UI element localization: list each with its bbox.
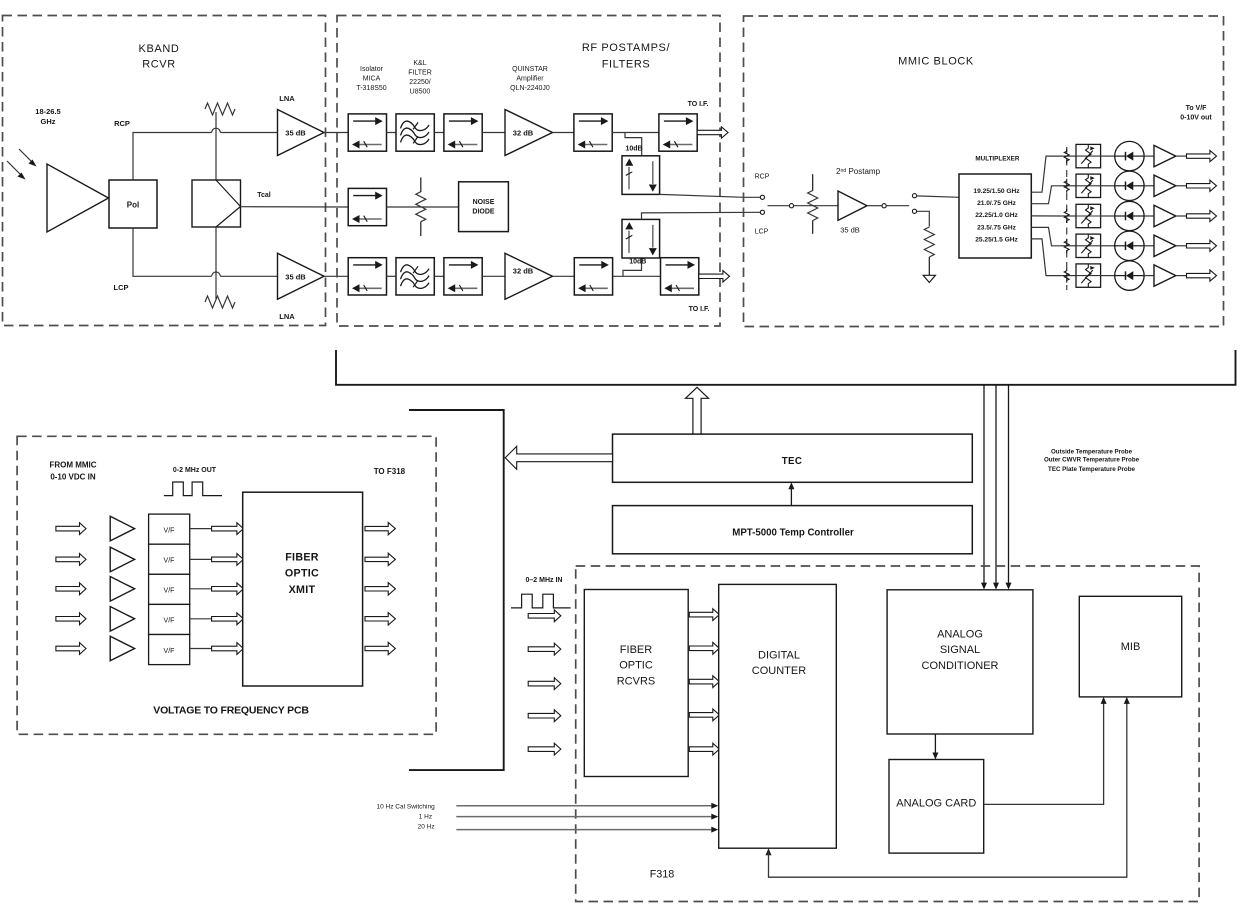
F318 fiber input arrow 5 (528, 743, 561, 755)
svg-text:TO F318: TO F318 (374, 467, 406, 476)
svg-text:RCP: RCP (114, 119, 130, 128)
channel 1 wire into detector chain (1060, 155, 1076, 157)
wire Pol top to RCP line (133, 133, 212, 181)
postamp level resistor (808, 191, 818, 221)
svg-text:DIGITAL: DIGITAL (758, 650, 800, 662)
svg-text:2nd Postamp: 2nd Postamp (836, 167, 881, 176)
V/F to XMIT arrow 2 (212, 554, 244, 566)
channel 4 variable attenuator (1076, 234, 1101, 257)
wire 10dB attenuator to LCP switch contact (642, 212, 761, 219)
F318 fiber input arrow 1 (528, 610, 561, 622)
square wave symbol V/F output (164, 482, 222, 496)
To V/F 0-10V out label (1180, 105, 1212, 122)
svg-text:35 dB: 35 dB (840, 226, 860, 235)
rcvr to counter arrow 5 (689, 743, 719, 755)
MPT-5000 Temp Controller box (613, 506, 973, 554)
svg-text:DIODE: DIODE (472, 209, 495, 216)
MIB box (1079, 596, 1181, 697)
postamp isolator RCP (574, 114, 612, 151)
rcvr to counter arrow 3 (689, 676, 719, 688)
wire isolator to 32dB amp (LCP) (482, 275, 505, 277)
QUINSTAR Amplifier label (510, 66, 550, 92)
svg-text:LNA: LNA (279, 94, 295, 103)
wire upper contact to multiplexer (917, 196, 959, 197)
svg-text:TEC: TEC (782, 456, 803, 467)
svg-text:QLN-2240J0: QLN-2240J0 (510, 85, 550, 92)
FROM MMIC 0-10 VDC IN label (49, 461, 96, 482)
LNA amplifier bottom (278, 253, 325, 299)
wire isolator to noise source resistor (387, 206, 459, 208)
svg-text:ANALOG CARD: ANALOG CARD (896, 798, 976, 810)
channel 5 video amplifier (1154, 265, 1176, 286)
TEC hollow arrow to plate (686, 387, 709, 434)
channel 1 wire amplifier to output (1176, 155, 1187, 157)
F318 fiber input arrow 4 (528, 710, 561, 722)
svg-text:FROM MMIC: FROM MMIC (49, 461, 96, 470)
mux output wire channel 4 (1031, 227, 1060, 245)
wire postamp to output contact (867, 205, 882, 207)
wire pole to postamp (794, 205, 838, 207)
wire V/F to xmit arrow 4 (190, 618, 212, 620)
svg-text:22.25/1.0 GHz: 22.25/1.0 GHz (975, 212, 1018, 219)
channel 3 wire amplifier to output (1176, 215, 1187, 217)
channel 2 wire into detector chain (1060, 185, 1076, 187)
channel 5 output arrow (1187, 270, 1217, 281)
wire V/F to xmit arrow 3 (190, 588, 212, 590)
V/F input arrow 5 (56, 643, 86, 655)
cal switching wire 20 Hz (456, 827, 718, 833)
V/F converter box 2 (149, 544, 190, 574)
svg-text:TEC Plate Temperature Probe: TEC Plate Temperature Probe (1048, 466, 1135, 473)
mux output wire channel 2 (1031, 186, 1060, 204)
FIBER OPTIC RCVRS box (584, 590, 688, 777)
noise injection attenuator resistor (416, 177, 426, 236)
V/F converter box 4 (149, 604, 190, 634)
channel 2 bias resistor (1064, 179, 1069, 193)
channel 4 wire attenuator to detector (1101, 245, 1115, 247)
V/F input buffer amplifier 5 (110, 636, 134, 661)
channel 4 video amplifier (1154, 235, 1176, 256)
channel 5 wire attenuator to detector (1101, 275, 1115, 277)
TO I.F. output arrow top (697, 127, 728, 138)
antenna horn (47, 164, 109, 232)
channel 1 video amplifier (1154, 145, 1176, 166)
V/F to XMIT arrow 1 (212, 523, 244, 535)
wire isolator to 32dB amp (RCP) (482, 132, 505, 134)
svg-text:FIBER: FIBER (285, 551, 319, 563)
RF POSTAMPS/FILTERS title (582, 42, 671, 71)
channel 3 wire detector to amplifier (1144, 215, 1154, 217)
V/F converter box 1 (149, 514, 190, 544)
svg-text:32 dB: 32 dB (513, 129, 534, 138)
TO I.F. output arrow bottom (699, 271, 730, 282)
svg-text:FIBER: FIBER (620, 644, 652, 656)
svg-text:0-2 MHz OUT: 0-2 MHz OUT (173, 467, 217, 474)
svg-text:GHz: GHz (41, 117, 56, 126)
svg-text:TO I.F.: TO I.F. (689, 306, 710, 313)
svg-text:32 dB: 32 dB (513, 266, 534, 275)
TEC hollow arrow to V/F cable bracket (505, 446, 612, 469)
thermal bus plate (336, 350, 1236, 385)
arrow conditioner to analog card (932, 734, 938, 760)
temperature probe wire 2 (993, 385, 999, 590)
V/F to XMIT arrow 3 (212, 583, 244, 595)
wire V/F to xmit arrow 5 (190, 648, 212, 650)
wire tap to 10dB attenuator top (625, 133, 642, 156)
V/F input buffer amplifier 1 (110, 516, 134, 541)
V/F input arrow 1 (56, 523, 86, 535)
svg-text:FILTERS: FILTERS (602, 59, 651, 71)
svg-text:TO I.F.: TO I.F. (688, 101, 709, 108)
svg-text:20 Hz: 20 Hz (418, 823, 435, 830)
18-26.5 GHz label (35, 107, 60, 126)
top termination resistor (205, 103, 235, 115)
F318 enclosure dashed box (576, 566, 1199, 902)
10dB attenuator top (622, 156, 660, 195)
wire Tcal to middle isolator (241, 206, 349, 208)
temperature probe labels (1044, 448, 1140, 473)
svg-text:XMIT: XMIT (289, 584, 316, 596)
svg-text:CONDITIONER: CONDITIONER (922, 660, 999, 672)
svg-text:OPTIC: OPTIC (285, 568, 319, 580)
svg-text:Tcal: Tcal (257, 192, 271, 199)
channel 1 wire detector to amplifier (1144, 155, 1154, 157)
channel 4 wire detector to amplifier (1144, 245, 1154, 247)
channel 2 wire detector to amplifier (1144, 185, 1154, 187)
10dB attenuator bottom (622, 219, 660, 258)
incoming signal arrow 1 (19, 149, 37, 167)
fiber output arrow 1 (365, 522, 395, 534)
svg-text:MIB: MIB (1121, 641, 1141, 653)
QUINSTAR amplifier LCP 32 dB (505, 253, 553, 299)
polarizer box Pol (109, 180, 157, 228)
load resistor to ground (924, 227, 934, 275)
svg-text:RF POSTAMPS/: RF POSTAMPS/ (582, 42, 671, 54)
svg-text:U8500: U8500 (410, 89, 431, 96)
wire filter to isolator (LCP) (434, 275, 444, 277)
output isolator RCP (659, 114, 697, 151)
wire top resistor to coupler (215, 112, 217, 180)
wire amp to postamp isolator (RCP) (553, 132, 574, 134)
temperature probe wire 1 (981, 385, 987, 590)
svg-text:OPTIC: OPTIC (619, 660, 653, 672)
channel 1 bias resistor (1064, 149, 1069, 163)
cal coupler box (192, 180, 241, 227)
channel 3 video amplifier (1154, 205, 1176, 226)
svg-text:35 dB: 35 dB (285, 129, 306, 138)
wire V/F to xmit arrow 1 (190, 528, 212, 530)
channel 3 wire attenuator to detector (1101, 215, 1115, 217)
V/F converter box 5 (149, 635, 190, 665)
QUINSTAR amplifier RCP 32 dB (505, 110, 553, 156)
rcvr to counter arrow 1 (689, 609, 719, 621)
V/F input buffer amplifier 4 (110, 607, 134, 632)
channel 1 output arrow (1187, 151, 1217, 162)
channel 2 wire attenuator to detector (1101, 185, 1115, 187)
isolator post-filter RCP (444, 114, 482, 151)
mux switch upper contact (912, 194, 916, 198)
K&L filter LCP (396, 258, 434, 295)
channel 1 variable attenuator (1076, 144, 1101, 167)
channel 2 output arrow (1187, 180, 1217, 191)
svg-text:18-26.5: 18-26.5 (35, 107, 60, 116)
fiber output arrow 4 (365, 613, 395, 625)
V/F input arrow 3 (56, 583, 86, 595)
wire V/F to xmit arrow 2 (190, 558, 212, 560)
channel 4 output arrow (1187, 240, 1217, 251)
ANALOG SIGNAL CONDITIONER box (887, 590, 1033, 734)
wire bottom LNA to isolator (324, 275, 348, 277)
channel 2 detector diode (1115, 171, 1144, 200)
isolator post-filter LCP (444, 258, 482, 295)
incoming signal arrow 2 (7, 161, 26, 180)
postamp isolator LCP (574, 258, 612, 295)
svg-text:0-10 VDC IN: 0-10 VDC IN (50, 473, 96, 482)
svg-text:V/F: V/F (164, 527, 175, 534)
wire top LNA to isolator (324, 132, 348, 134)
rcvr to counter arrow 4 (689, 709, 719, 721)
svg-text:0-10V out: 0-10V out (1180, 115, 1212, 122)
channel 3 detector diode (1115, 201, 1144, 230)
postamp gain resistor (808, 174, 818, 234)
svg-text:LCP: LCP (114, 283, 129, 292)
MMIC BLOCK enclosure dashed box (744, 16, 1224, 327)
KBAND RCVR title (139, 43, 180, 71)
mux switch lower contact (912, 209, 916, 213)
F318 fiber input arrow 2 (528, 643, 561, 655)
cal switching wire 1 Hz (456, 814, 718, 820)
FIBER OPTIC XMIT box (243, 492, 363, 686)
wire isolator to filter (RCP) (387, 132, 397, 134)
channel 3 wire into detector chain (1060, 215, 1076, 217)
channel 2 variable attenuator (1076, 174, 1101, 197)
ANALOG CARD box (889, 760, 984, 854)
svg-text:MMIC BLOCK: MMIC BLOCK (898, 56, 974, 68)
channel 1 detector diode (1115, 141, 1144, 170)
output isolator LCP (661, 258, 699, 295)
channel 2 wire amplifier to output (1176, 185, 1187, 187)
channel 4 detector diode (1115, 231, 1144, 260)
LCP switch contact (760, 210, 764, 214)
svg-text:T-318S50: T-318S50 (356, 85, 386, 92)
svg-text:MULTIPLEXER: MULTIPLEXER (975, 155, 1019, 162)
DIGITAL COUNTER box (719, 584, 837, 848)
channel 3 bias resistor (1064, 209, 1069, 223)
V/F to XMIT arrow 5 (212, 643, 244, 655)
svg-text:V/F: V/F (164, 648, 175, 655)
svg-text:V/F: V/F (164, 588, 175, 595)
fiber cable bracket (409, 410, 504, 770)
channel 5 wire detector to amplifier (1144, 275, 1154, 277)
postamp output contact (882, 204, 886, 208)
V/F converter box 3 (149, 574, 190, 604)
svg-text:ANALOG: ANALOG (937, 629, 983, 641)
wire coupler to bottom resistor (215, 227, 217, 299)
wire tap to 10dB attenuator bottom (623, 258, 642, 276)
svg-text:LNA: LNA (279, 312, 295, 321)
channel 5 detector diode (1115, 261, 1144, 290)
svg-text:RCVR: RCVR (142, 59, 176, 71)
termination load resistor (924, 227, 934, 257)
isolator noise injection (348, 188, 386, 225)
mux output wire channel 1 (1031, 156, 1060, 192)
svg-text:NOISE: NOISE (473, 199, 495, 206)
K&L filter RCP (396, 114, 434, 151)
svg-text:Pol: Pol (127, 201, 139, 210)
TEC box (613, 434, 973, 482)
ground symbol (923, 275, 935, 282)
VOLTAGE TO FREQUENCY PCB enclosure dashed box (17, 436, 436, 734)
isolator RCP input (348, 114, 386, 151)
2nd postamp amplifier (838, 191, 867, 220)
svg-text:10dB: 10dB (625, 146, 642, 153)
Isolator MICA T-318S50 label (356, 66, 386, 92)
wire amp to postamp isolator (LCP) (553, 275, 575, 277)
svg-text:0–2 MHz IN: 0–2 MHz IN (526, 577, 563, 584)
channel 3 variable attenuator (1076, 204, 1101, 227)
V/F input buffer amplifier 3 (110, 577, 134, 602)
RCP switch contact (760, 195, 764, 199)
KBAND RCVR enclosure dashed box (3, 16, 326, 326)
svg-text:QUINSTAR: QUINSTAR (512, 66, 548, 73)
svg-text:RCVRS: RCVRS (617, 675, 656, 687)
channel 4 bias resistor (1064, 239, 1069, 253)
wire postamp isolator to output isolator (RCP) (612, 132, 659, 134)
K&L FILTER label (408, 60, 432, 96)
svg-text:Outer CWVR Temperature Probe: Outer CWVR Temperature Probe (1044, 457, 1140, 464)
F318 fiber input arrow 3 (528, 678, 561, 690)
rcvr to counter arrow 2 (689, 642, 719, 654)
wire filter to isolator (RCP) (434, 132, 444, 134)
wire output contact to mux switch (886, 205, 909, 207)
svg-text:23.5/.75 GHz: 23.5/.75 GHz (977, 224, 1017, 231)
channel 4 wire into detector chain (1060, 245, 1076, 247)
svg-text:19.25/1.50 GHz: 19.25/1.50 GHz (973, 188, 1020, 195)
square wave symbol F318 input (511, 594, 571, 608)
svg-text:MICA: MICA (363, 76, 381, 83)
wire RCP line to top LNA (220, 132, 277, 134)
fiber output arrow 5 (365, 642, 395, 654)
svg-text:FILTER: FILTER (408, 70, 432, 77)
svg-text:35 dB: 35 dB (285, 272, 306, 281)
svg-text:Isolator: Isolator (360, 66, 384, 73)
noise attenuator resistor (416, 192, 426, 222)
LNA amplifier top (278, 110, 325, 156)
svg-text:SIGNAL: SIGNAL (940, 644, 980, 656)
wire hop on RCP line (212, 128, 221, 132)
bias dashed line through channel resistors (1066, 147, 1068, 290)
svg-text:V/F: V/F (164, 558, 175, 565)
arrow MPT to TEC (788, 482, 794, 505)
channel 1 wire attenuator to detector (1101, 155, 1115, 157)
channel 5 wire amplifier to output (1176, 275, 1187, 277)
wire postamp isolator to output isolator (LCP) (613, 275, 661, 277)
svg-text:K&L: K&L (413, 60, 426, 67)
MULTIPLEXER box (959, 174, 1031, 258)
wire Pol bottom to LCP line (133, 228, 212, 276)
svg-text:10 Hz Cal Switching: 10 Hz Cal Switching (377, 803, 436, 810)
svg-text:To V/F: To V/F (1186, 105, 1208, 112)
temperature probe wire 3 (1006, 385, 1012, 590)
NOISE DIODE box (459, 182, 509, 232)
wire lower contact to load resistor (917, 211, 930, 226)
svg-text:10dB: 10dB (629, 259, 646, 266)
cal switching wire 10 Hz (456, 803, 718, 809)
svg-text:25.25/1.5 GHz: 25.25/1.5 GHz (975, 237, 1018, 244)
V/F to XMIT arrow 4 (212, 613, 244, 625)
svg-text:1 Hz: 1 Hz (419, 813, 432, 820)
V/F input arrow 4 (56, 613, 86, 625)
channel 2 video amplifier (1154, 175, 1176, 196)
isolator LCP input (348, 258, 386, 295)
svg-text:KBAND: KBAND (139, 43, 180, 55)
mux output wire channel 3 (1031, 215, 1060, 217)
wire LCP line to bottom LNA (220, 275, 277, 277)
input switch pole contact (789, 204, 793, 208)
analog card to MIB link (984, 697, 1107, 805)
svg-text:21.0/.75 GHz: 21.0/.75 GHz (977, 200, 1017, 207)
channel 5 wire into detector chain (1060, 275, 1076, 277)
bottom termination resistor (205, 296, 235, 308)
svg-text:RCP: RCP (755, 174, 770, 181)
svg-text:F318: F318 (650, 869, 675, 881)
channel 3 output arrow (1187, 210, 1217, 221)
svg-text:Amplifier: Amplifier (516, 76, 544, 83)
fiber output arrow 2 (365, 553, 395, 565)
V/F input arrow 2 (56, 554, 86, 566)
wire isolator to filter (LCP) (387, 275, 397, 277)
svg-text:Outside Temperature Probe: Outside Temperature Probe (1051, 448, 1133, 455)
svg-text:MPT-5000 Temp Controller: MPT-5000 Temp Controller (732, 527, 854, 538)
channel 5 bias resistor (1064, 269, 1069, 283)
channel 4 wire amplifier to output (1176, 245, 1187, 247)
RF POSTAMPS FILTERS enclosure dashed box (337, 16, 720, 327)
V/F input buffer amplifier 2 (110, 547, 134, 572)
svg-text:VOLTAGE TO FREQUENCY PCB: VOLTAGE TO FREQUENCY PCB (153, 704, 309, 716)
input switch blade wire (768, 205, 790, 207)
svg-text:LCP: LCP (755, 229, 769, 236)
wire hop on LCP line (212, 272, 221, 276)
svg-text:V/F: V/F (164, 618, 175, 625)
svg-text:22250/: 22250/ (409, 79, 430, 86)
channel 5 variable attenuator (1076, 264, 1101, 287)
counter to MIB link (766, 697, 1130, 877)
wire 10dB attenuator to RCP switch contact (660, 194, 761, 197)
fiber output arrow 3 (365, 583, 395, 595)
svg-text:COUNTER: COUNTER (752, 665, 806, 677)
mux output wire channel 5 (1031, 239, 1060, 276)
